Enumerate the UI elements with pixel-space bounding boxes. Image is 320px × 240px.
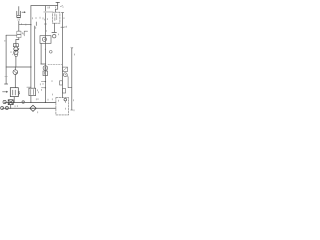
tick on left rail [5, 76, 8, 78]
component circle inside dashed box [64, 98, 67, 101]
bar atop component stack [18, 30, 21, 32]
motor circle M2 [63, 73, 67, 77]
wire mid horizontal y67 [6, 66, 31, 68]
node dot tick1 spine B [45, 81, 46, 82]
solenoid valve box bottom left [10, 88, 18, 97]
wire lower line [2, 107, 56, 109]
tick on right spine [61, 26, 64, 28]
small port circle on bus [22, 101, 25, 104]
valve block box with circle on spine B [40, 36, 51, 44]
tick left of cluster [27, 86, 31, 88]
wire solenoid to bus [13, 97, 15, 103]
valve cluster box bottom middle [29, 88, 36, 95]
arrow tick above spine A2 [35, 22, 37, 26]
switch T contact top right [56, 2, 63, 6]
node dot solenoid-bus [14, 102, 15, 103]
gauge cluster cap box [13, 44, 18, 47]
ground below probe [17, 18, 21, 21]
capacitor bar terminator [52, 31, 57, 33]
wire right spine vertical [61, 13, 63, 98]
wire filter to lower line [10, 105, 12, 109]
wire stub horizontal to pump [14, 67, 16, 70]
wire cluster to bus [30, 96, 32, 103]
node dot spine B bus [45, 102, 46, 103]
component stack box upper [17, 31, 21, 34]
port circle on bus left [3, 100, 6, 103]
faint label smudge [44, 11, 54, 13]
wire spine B vertical [44, 6, 46, 103]
reference numerals (specks) [5, 7, 75, 113]
wire pump to solenoid box [14, 74, 16, 87]
wire right rail vertical [71, 49, 73, 110]
small circle right of spine B [50, 51, 53, 54]
relay box K1 (dashed, top right) [52, 12, 60, 23]
pressure element circle [53, 35, 56, 38]
variable arrow across circles [13, 49, 19, 55]
tick on spine B [44, 23, 46, 25]
annotation arrow to spine [22, 12, 25, 13]
spring right of stack [22, 33, 23, 35]
hook at top of right rail [71, 47, 73, 48]
wire below relay box [54, 23, 56, 32]
valve box on right spine [62, 67, 67, 71]
wire from motor circle to right rail [67, 76, 72, 88]
valve box B2 on spine B [43, 71, 48, 76]
wire from T down into dashed box [55, 6, 57, 13]
arrow pointing at solenoid box [3, 91, 8, 92]
wire branch y24.7 [19, 21, 31, 31]
port circle lower 1 [1, 107, 4, 110]
crossbar joining legs [41, 63, 46, 65]
wire spine A2 vertical [34, 26, 36, 88]
wire upper bus [5, 101, 56, 103]
spring right of solenoid box [19, 91, 20, 94]
arrow on pump circle [14, 71, 18, 74]
wire stack to gauge cluster [16, 38, 19, 44]
node dot tick2 spine B [45, 87, 46, 88]
dashed box bottom right [56, 98, 69, 115]
small box right of right spine [62, 89, 65, 93]
pilot dashed line [48, 64, 62, 66]
wire funnel to mid horizontal [15, 57, 17, 68]
filter box with X on bus [8, 100, 13, 105]
node dot y67 spine A [30, 66, 31, 67]
port circle lower 2 [5, 107, 8, 110]
funnel below gauges [14, 54, 17, 56]
end bar right rail [71, 109, 73, 111]
component stack box lower [17, 35, 21, 38]
stub below component [64, 101, 66, 103]
pump circle with arrow [13, 70, 18, 75]
node dot branch [30, 24, 31, 25]
gauge circle 2 variable [14, 50, 18, 54]
small box left of right spine [60, 81, 63, 85]
bracket contact right of stack [24, 31, 27, 36]
wire left rail vertical [5, 35, 7, 83]
node dot cluster-bus [30, 102, 31, 103]
pump diamond on lower line [30, 105, 36, 111]
tick at top of right spine [62, 12, 64, 14]
wire spine A vertical [30, 6, 32, 89]
wire left rail horizontal top [6, 34, 17, 36]
end bar of left rail [5, 83, 8, 85]
check valve circle with cross on spine B [43, 66, 48, 71]
wire top rail [31, 5, 58, 7]
wire left leg from valve block [40, 43, 42, 64]
gauge circle 1 [14, 47, 18, 51]
node dot on spine B [45, 49, 46, 50]
top left probe component cup [17, 7, 21, 18]
node dot filter-lower line [10, 108, 11, 109]
